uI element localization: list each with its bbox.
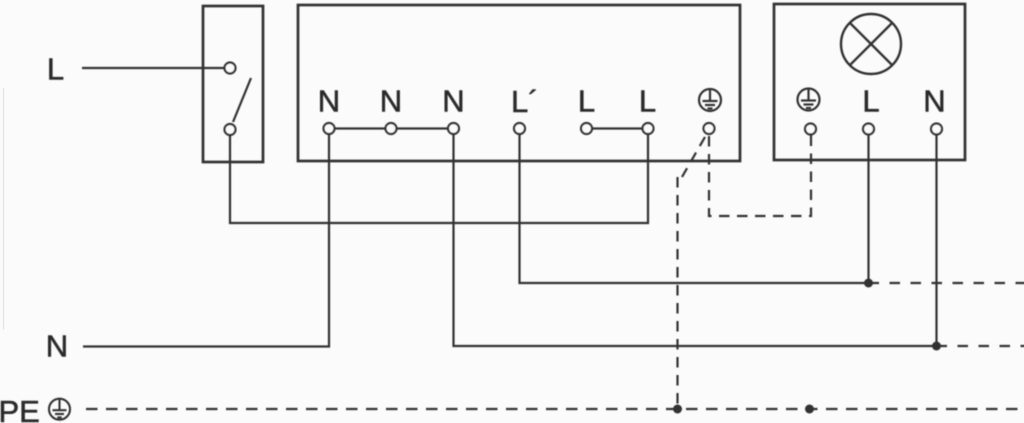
svg-text:N: N (442, 84, 464, 119)
svg-text:L: L (47, 52, 64, 87)
svg-text:N: N (318, 84, 340, 119)
svg-text:N: N (46, 329, 68, 364)
svg-text:L: L (639, 84, 656, 119)
svg-text:N: N (380, 84, 402, 119)
svg-text:L: L (578, 84, 595, 119)
svg-text:N: N (923, 84, 945, 119)
svg-text:L: L (862, 84, 879, 119)
svg-text:L´: L´ (511, 84, 539, 119)
svg-text:PE: PE (0, 394, 40, 423)
